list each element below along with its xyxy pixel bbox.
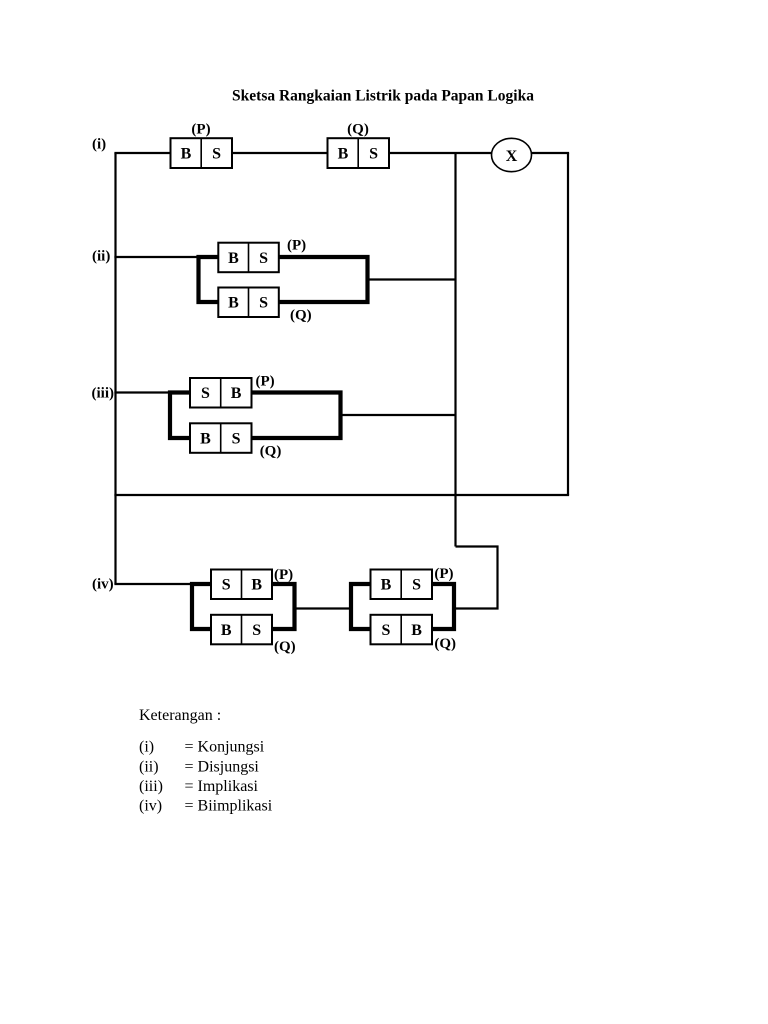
switch box Q row iii (190, 423, 252, 453)
svg-text:S: S (412, 577, 421, 594)
wire row iv group1 left bracket (192, 584, 211, 629)
svg-text:= Disjungsi: = Disjungsi (185, 759, 260, 776)
svg-text:(iv): (iv) (139, 798, 162, 815)
svg-text:B: B (221, 622, 232, 639)
svg-text:Sketsa Rangkaian Listrik pada: Sketsa Rangkaian Listrik pada Papan Logi… (232, 88, 534, 105)
wire row i middle (232, 152, 328, 154)
svg-text:S: S (212, 146, 221, 163)
svg-text:S: S (252, 622, 261, 639)
wire row ii to middle bus (368, 278, 456, 280)
svg-text:S: S (381, 622, 390, 639)
wire row iv group2 right bracket (432, 584, 454, 629)
svg-text:B: B (411, 622, 422, 639)
svg-text:(Q): (Q) (274, 639, 296, 655)
svg-text:S: S (259, 295, 268, 312)
switch box P row iii (190, 378, 252, 408)
wire row ii feed (114, 256, 199, 258)
svg-text:= Implikasi: = Implikasi (185, 778, 259, 795)
svg-text:(iv): (iv) (92, 577, 114, 593)
switch box P row iv group1 (211, 570, 272, 600)
wire row iv group2 left bracket (351, 584, 371, 629)
svg-text:Keterangan :: Keterangan : (139, 707, 221, 724)
svg-text:(P): (P) (256, 374, 275, 390)
switch box P row iv group2 (371, 570, 433, 600)
wire right bus (567, 153, 569, 495)
svg-text:(P): (P) (274, 567, 293, 583)
wire row i left (114, 152, 170, 154)
svg-text:S: S (232, 430, 241, 447)
svg-text:S: S (369, 146, 378, 163)
svg-text:B: B (181, 146, 192, 163)
svg-text:(ii): (ii) (92, 249, 110, 265)
wire row iii feed (114, 391, 171, 393)
svg-text:(Q): (Q) (290, 308, 312, 324)
svg-text:S: S (201, 385, 210, 402)
svg-text:S: S (222, 577, 231, 594)
wire middle bus jog to row iv (454, 547, 498, 609)
switch box Q row iv group2 (371, 615, 433, 645)
svg-text:B: B (338, 146, 349, 163)
switch box Q row iv group1 (211, 615, 272, 645)
svg-text:(iii): (iii) (92, 386, 115, 402)
wire row iv group1 right bracket (272, 584, 295, 629)
switch box Q row ii (218, 288, 278, 318)
svg-text:(Q): (Q) (434, 636, 456, 652)
switch box P row i (171, 138, 233, 168)
wire row iii left bracket (170, 393, 190, 439)
svg-text:S: S (259, 250, 268, 267)
switch box P row ii (218, 243, 278, 273)
svg-text:B: B (251, 577, 262, 594)
switch box Q row i (328, 138, 390, 168)
wire row iv feed (114, 583, 192, 585)
svg-text:B: B (231, 385, 242, 402)
lamp X (492, 138, 532, 171)
wire row ii right bracket (279, 257, 368, 302)
svg-text:(iii): (iii) (139, 778, 163, 795)
svg-text:(P): (P) (287, 238, 306, 254)
wire row iii right bracket (252, 393, 341, 439)
wire row iii to middle bus (341, 414, 456, 416)
svg-text:(i): (i) (139, 739, 154, 756)
wire row ii left bracket (199, 257, 219, 302)
wire left bus (114, 153, 116, 584)
svg-text:(Q): (Q) (347, 122, 369, 138)
svg-text:= Biimplikasi: = Biimplikasi (185, 798, 273, 815)
svg-text:B: B (228, 295, 239, 312)
svg-text:= Konjungsi: = Konjungsi (185, 739, 265, 756)
wire row iv series link (295, 607, 352, 609)
wire bottom return (114, 494, 569, 496)
svg-text:B: B (381, 577, 392, 594)
wire row i to lamp (389, 152, 492, 154)
svg-text:B: B (200, 430, 211, 447)
svg-text:(i): (i) (92, 137, 106, 153)
svg-text:(P): (P) (434, 566, 453, 582)
svg-text:(P): (P) (191, 122, 210, 138)
svg-text:X: X (506, 148, 518, 165)
svg-text:(Q): (Q) (260, 444, 282, 460)
svg-text:(ii): (ii) (139, 759, 159, 776)
svg-text:B: B (228, 250, 239, 267)
wire lamp to right bus (532, 152, 570, 154)
wire middle bus (454, 152, 456, 547)
